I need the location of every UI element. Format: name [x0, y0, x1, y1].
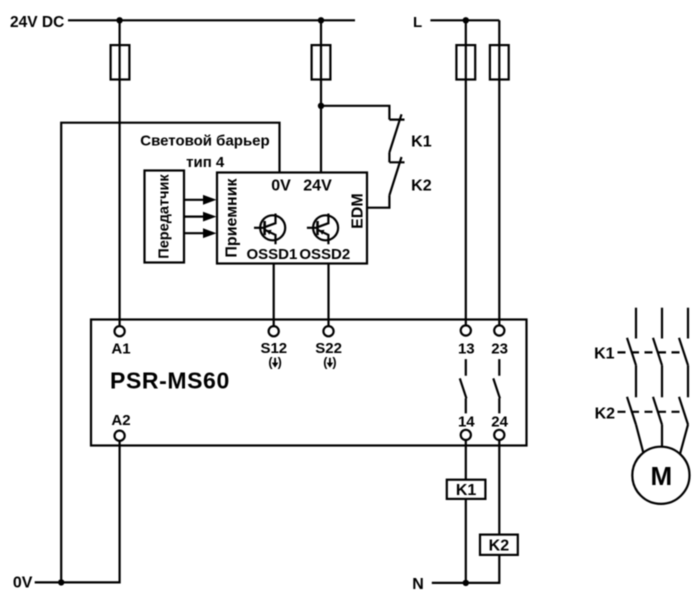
wire motor lead 2	[661, 425, 663, 447]
svg-text:24V DC: 24V DC	[10, 14, 64, 31]
wire 24V DC rail	[68, 19, 355, 21]
contact K1 pole 1	[627, 338, 636, 366]
transmitter box	[145, 171, 185, 263]
contact K1 pole 2	[653, 338, 662, 366]
label S22 arrow	[323, 356, 336, 370]
svg-text:K1: K1	[594, 346, 615, 363]
svg-text:14: 14	[458, 414, 475, 431]
wire phase 2 top	[661, 308, 663, 339]
terminal 13	[461, 325, 471, 335]
terminal 24	[494, 430, 504, 440]
svg-text:M: M	[650, 461, 672, 491]
wire K2 contact to EDM pin	[367, 195, 389, 207]
svg-text:K2: K2	[595, 406, 616, 423]
wire phase 1 mid	[635, 365, 637, 397]
transistor OSSD1 output	[254, 214, 285, 245]
svg-text:Передатчик: Передатчик	[156, 174, 172, 259]
wire 24 to K2 coil	[498, 440, 500, 535]
fuse F4	[490, 45, 509, 79]
relay box PSR-MS60	[91, 320, 527, 446]
motor M	[632, 447, 689, 504]
svg-text:(: (	[268, 356, 273, 370]
node junction N/K1	[463, 580, 469, 586]
svg-text:A2: A2	[111, 412, 130, 429]
contact K2 pole 3	[679, 397, 688, 425]
svg-text:A1: A1	[111, 340, 130, 357]
svg-text:EDM: EDM	[350, 193, 367, 229]
wire between K1 and K2 contacts	[388, 153, 390, 163]
svg-text:Приемник: Приемник	[224, 177, 241, 257]
wire K1 linkage dashed	[618, 351, 685, 353]
wire 23 feed	[498, 20, 500, 325]
svg-text:OSSD2: OSSD2	[299, 246, 350, 263]
wire N rail	[432, 582, 500, 584]
arrow light beam 1	[184, 199, 204, 201]
wire L rail	[430, 19, 499, 21]
svg-text:Световой барьер: Световой барьер	[140, 133, 269, 150]
wire 24V feed to receiver	[320, 20, 322, 172]
wire phase 3 top	[687, 308, 689, 339]
svg-text:PSR-MS60: PSR-MS60	[110, 367, 230, 393]
contact K1 NC	[389, 114, 404, 152]
terminal A2	[115, 431, 125, 441]
fuse F2	[312, 45, 331, 79]
svg-text:S12: S12	[260, 340, 287, 357]
node junction 24V/A1	[116, 17, 122, 23]
svg-text:24V: 24V	[303, 178, 332, 195]
terminal A1	[115, 326, 125, 336]
arrow light beam 2	[184, 216, 204, 218]
svg-text:N: N	[412, 576, 424, 593]
svg-text:): )	[332, 356, 336, 370]
wire EDM branch to K1 contact	[321, 106, 389, 120]
contact K2 NC	[389, 157, 404, 195]
wire 0V feed (left loop)	[61, 123, 279, 583]
arrow light beam 3	[184, 232, 204, 234]
terminal S22	[323, 326, 333, 336]
svg-text:0V: 0V	[271, 178, 291, 195]
svg-text:13: 13	[458, 341, 475, 358]
wire OSSD1 to S12	[273, 264, 275, 327]
svg-text:S22: S22	[315, 340, 342, 357]
wire A2 to 0V	[35, 441, 120, 583]
wire phase 2 mid	[661, 365, 663, 397]
wire K2 linkage dashed	[618, 411, 685, 413]
label S12 arrow	[268, 356, 281, 370]
node junction L/13	[463, 17, 469, 23]
coil K2	[480, 535, 518, 555]
svg-text:K1: K1	[411, 134, 432, 151]
svg-text:K1: K1	[456, 482, 477, 499]
wire motor lead 1	[636, 425, 644, 455]
wire phase 1 top	[635, 308, 637, 339]
node junction 24V/receiver supply	[318, 17, 324, 23]
contact K2 pole 2	[653, 397, 662, 425]
contact K1 pole 3	[679, 338, 688, 366]
receiver box	[217, 173, 367, 264]
node junction 0V	[58, 579, 64, 585]
coil K1	[447, 480, 486, 499]
fuse F3	[456, 45, 475, 79]
wire K1 coil to N	[465, 499, 467, 583]
terminal S12	[269, 326, 279, 336]
wire K2 coil to N	[498, 555, 500, 583]
svg-text:24: 24	[491, 414, 508, 431]
svg-text:OSSD1: OSSD1	[246, 246, 297, 263]
svg-text:тип 4: тип 4	[186, 154, 225, 171]
fuse F1	[111, 45, 130, 79]
contact K2 pole 1	[627, 397, 636, 425]
wire 14 to K1 coil	[465, 440, 467, 480]
transistor OSSD2 output	[307, 214, 338, 245]
wire A1 feed	[118, 20, 120, 326]
contact 13-14 NO	[460, 359, 467, 413]
terminal 23	[494, 325, 504, 335]
terminal 14	[461, 430, 471, 440]
node junction EDM branch	[318, 103, 324, 109]
wire 13 feed	[465, 20, 467, 325]
svg-text:(: (	[323, 356, 328, 370]
contact 23-24 NO	[493, 359, 500, 413]
svg-text:K2: K2	[489, 537, 510, 554]
wire motor lead 3	[680, 425, 688, 454]
svg-text:K2: K2	[411, 177, 432, 194]
wire phase 3 mid	[687, 365, 689, 397]
svg-text:): )	[278, 356, 282, 370]
svg-text:23: 23	[491, 341, 508, 358]
svg-text:0V: 0V	[13, 575, 33, 592]
svg-text:L: L	[413, 14, 422, 31]
wire OSSD2 to S22	[327, 264, 329, 327]
